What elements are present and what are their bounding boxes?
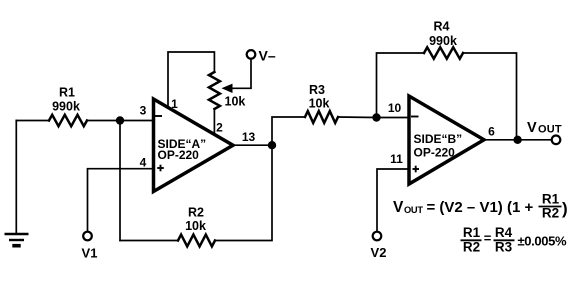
svg-text:13: 13 — [242, 130, 256, 144]
terminal V- — [247, 50, 256, 59]
pin 4 label — [140, 156, 147, 170]
svg-text:2: 2 — [216, 121, 223, 135]
svg-text:=: = — [484, 230, 492, 245]
label pot 10k — [225, 95, 246, 109]
wire feedback vertical down to R2 — [119, 121, 121, 241]
svg-text:R1: R1 — [542, 192, 560, 207]
potentiometer 10k trim — [209, 72, 220, 109]
resistor R2 — [178, 235, 215, 247]
wire op-amp B output to VOUT — [484, 139, 552, 141]
resistor R3 — [305, 111, 338, 123]
op-amp A plus input sign — [157, 165, 164, 172]
svg-text:R2: R2 — [188, 206, 204, 220]
wire pot bottom to pin 2 — [213, 109, 215, 135]
label V1 — [82, 246, 98, 261]
wire R4 left branch — [377, 53, 425, 118]
svg-text:R4: R4 — [495, 225, 513, 240]
pin 6 label — [488, 125, 495, 139]
node feedback junction (R1 / pin 3 / R2) — [116, 116, 124, 124]
ground — [5, 121, 29, 246]
svg-text:SIDE“B”: SIDE“B” — [414, 132, 463, 146]
svg-text:R4: R4 — [434, 20, 450, 34]
pin 3 label — [140, 104, 147, 118]
svg-text:= (V2 – V1) (1 +: = (V2 – V1) (1 + — [427, 199, 534, 216]
svg-text:V2: V2 — [371, 245, 387, 260]
resistor R1 — [49, 115, 87, 126]
svg-text:R2: R2 — [463, 239, 480, 254]
node pin 10 junction — [372, 113, 380, 121]
label R2 10k — [185, 206, 206, 233]
op-amp U2 side B OP-220 — [409, 96, 484, 184]
svg-text:OP-220: OP-220 — [158, 148, 200, 162]
label VOUT — [527, 120, 562, 136]
svg-text:1: 1 — [171, 97, 178, 111]
pin 10 label — [388, 101, 402, 115]
wire R1 to op-amp pin 3 — [87, 120, 154, 122]
svg-text:6: 6 — [488, 125, 495, 139]
wire pin 4 to V1 — [88, 169, 154, 232]
svg-text:990k: 990k — [429, 34, 457, 48]
svg-text:10: 10 — [388, 101, 402, 115]
svg-text:11: 11 — [390, 152, 403, 166]
svg-text:10k: 10k — [225, 95, 246, 109]
op-amp A minus input sign — [155, 115, 162, 117]
svg-text:OUT: OUT — [404, 205, 423, 215]
svg-text:10k: 10k — [185, 219, 206, 233]
svg-text:10k: 10k — [309, 97, 330, 111]
svg-text:R3: R3 — [309, 83, 325, 97]
wire R3 to pin 10 node — [338, 116, 409, 119]
terminal V2 — [373, 232, 382, 241]
svg-text:V–: V– — [259, 48, 276, 64]
wire R4 right branch down to output — [463, 53, 517, 140]
label V2 — [371, 245, 387, 260]
wire output node up and to R3 — [272, 117, 305, 145]
label R4 990k — [429, 20, 457, 49]
wire R2 left segment — [120, 240, 178, 242]
pin 11 label — [390, 152, 403, 166]
wire pin 11 to V2 — [377, 169, 409, 232]
op-amp U1 side A OP-220 — [154, 99, 234, 192]
svg-text:R3: R3 — [495, 239, 513, 254]
terminal V1 — [83, 232, 92, 241]
pot wiper arrow — [222, 59, 252, 93]
svg-text:990k: 990k — [52, 100, 80, 114]
svg-text:±0.005%: ±0.005% — [518, 234, 567, 249]
resistor R4 — [424, 47, 463, 58]
label R1 990k — [52, 86, 80, 114]
pin 2 label — [216, 121, 223, 135]
svg-text:OUT: OUT — [538, 124, 562, 136]
wire R2 right segment up to output node — [215, 145, 272, 240]
label V- — [259, 48, 276, 64]
wire op-amp A output to node — [233, 144, 272, 146]
terminal VOUT — [552, 136, 561, 145]
formula R1/R2 = R4/R3 +/-0.005% — [461, 225, 567, 254]
svg-text:R1: R1 — [463, 225, 481, 240]
wire pin 1 up to trim pot top — [168, 52, 214, 108]
svg-text:R1: R1 — [59, 86, 75, 100]
label R3 10k — [309, 83, 330, 111]
op-amp B plus input sign — [413, 166, 420, 173]
formula VOUT = (V2 - V1)(1 + R1/R2) — [393, 192, 568, 221]
node A output junction — [268, 141, 276, 149]
svg-text:OP-220: OP-220 — [414, 146, 456, 160]
svg-text:3: 3 — [140, 104, 147, 118]
svg-text:R2: R2 — [542, 206, 559, 221]
pin 1 label — [171, 97, 178, 111]
wire ground to R1 — [16, 120, 49, 122]
svg-text:): ) — [562, 199, 568, 218]
pin 13 label — [242, 130, 256, 144]
svg-text:V: V — [527, 120, 537, 136]
svg-text:4: 4 — [140, 156, 147, 170]
svg-text:V1: V1 — [82, 246, 98, 261]
svg-text:V: V — [393, 199, 404, 216]
node output junction with R4 — [513, 136, 521, 144]
op-amp B minus input sign — [411, 116, 419, 118]
